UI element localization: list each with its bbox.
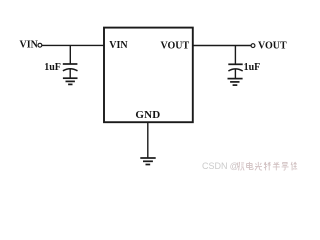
wire right cap upper lead bbox=[234, 46, 236, 65]
regulator IC U1 body bbox=[104, 28, 193, 123]
svg-text:CSDN: CSDN bbox=[202, 161, 228, 171]
watermark CSDN @username bbox=[202, 161, 297, 171]
capacitor C2 curved plate bbox=[228, 69, 242, 71]
svg-text:GND: GND bbox=[135, 109, 160, 121]
wire VIN rail (terminal to IC VIN pin) bbox=[42, 44, 104, 46]
capacitor C2 top plate bbox=[228, 63, 242, 65]
capacitor C1 curved plate bbox=[63, 69, 78, 71]
svg-text:VIN: VIN bbox=[20, 40, 39, 51]
wire GND pin lead bbox=[147, 123, 149, 159]
node VOUT terminal circle bbox=[251, 44, 255, 48]
ground (IC GND pin) bbox=[140, 158, 155, 165]
svg-text:1uF: 1uF bbox=[244, 62, 261, 73]
node VIN terminal circle bbox=[38, 43, 42, 47]
svg-text:1uF: 1uF bbox=[44, 62, 61, 73]
svg-text:VOUT: VOUT bbox=[258, 41, 287, 52]
capacitor C1 top plate bbox=[63, 63, 78, 65]
wire left cap lower lead bbox=[69, 69, 71, 78]
wire VOUT rail (IC VOUT pin to terminal) bbox=[193, 45, 251, 47]
ground (below C1) bbox=[63, 78, 78, 84]
wire left cap upper lead bbox=[69, 45, 71, 64]
ground (below C2) bbox=[228, 79, 243, 86]
wire right cap lower lead bbox=[234, 69, 236, 79]
svg-text:VOUT: VOUT bbox=[161, 40, 190, 51]
svg-text:VIN: VIN bbox=[109, 40, 128, 51]
svg-text:@: @ bbox=[230, 161, 239, 171]
